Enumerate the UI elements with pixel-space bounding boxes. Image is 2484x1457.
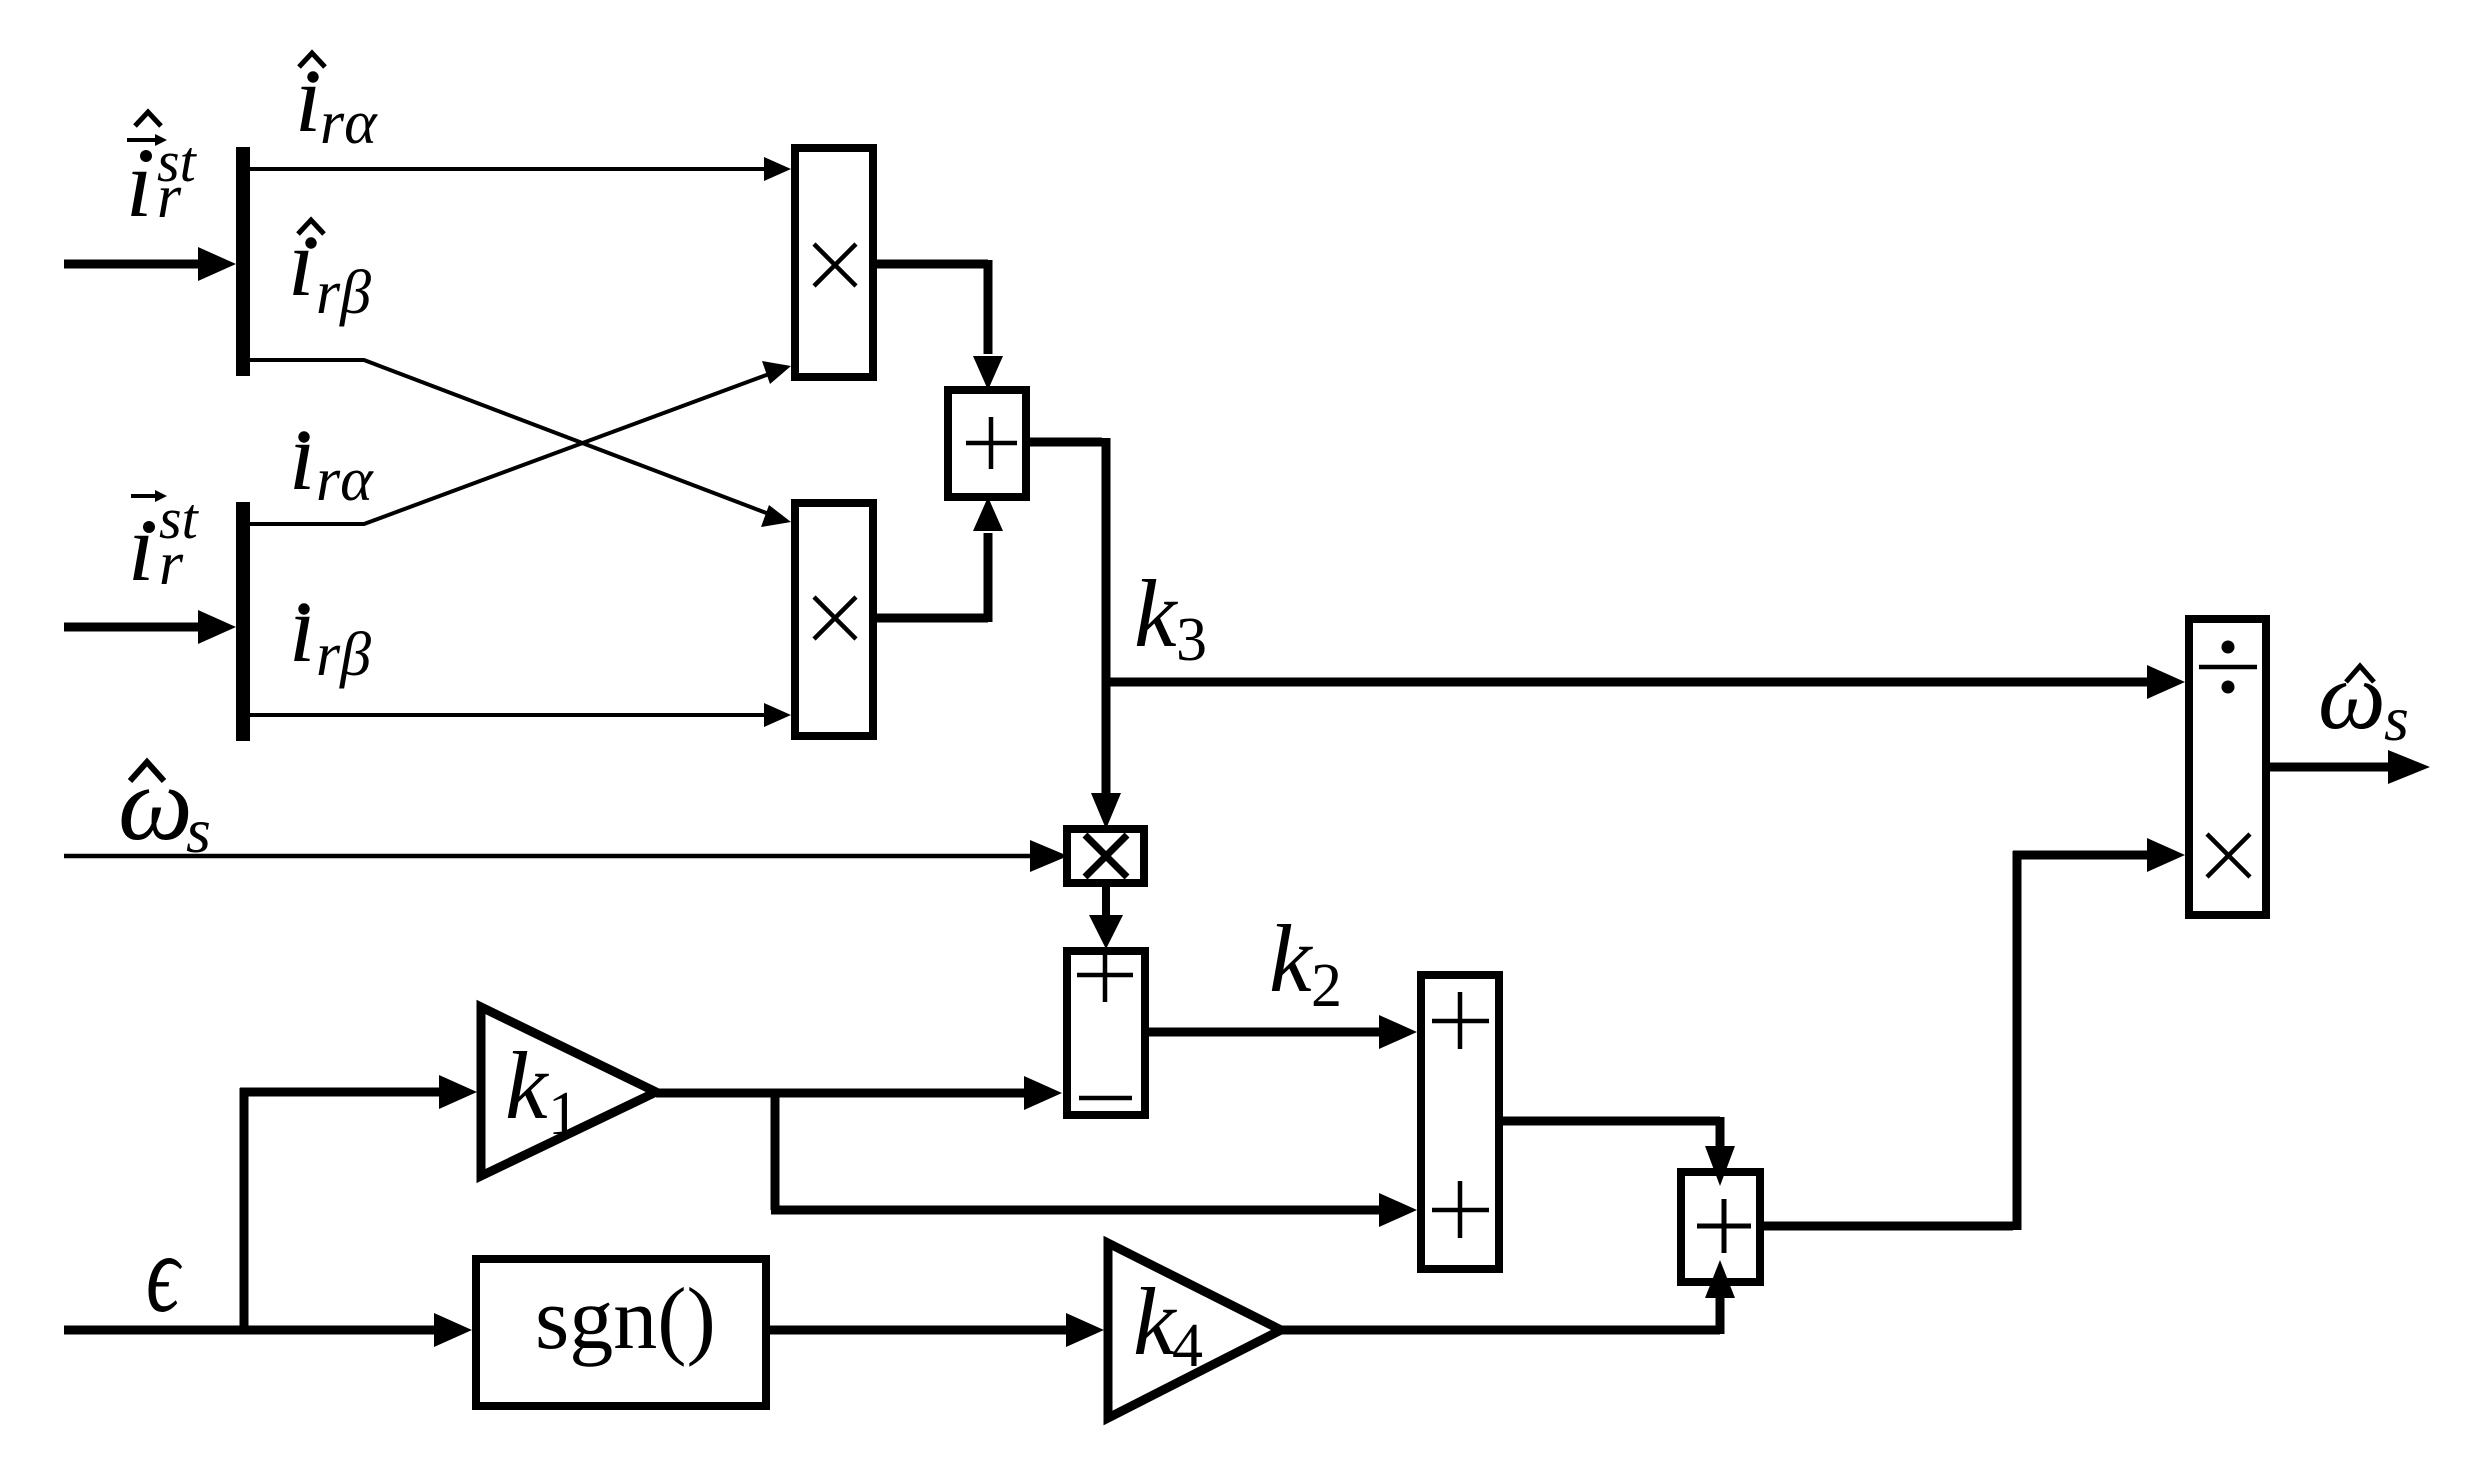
label i_r_alpha hat <box>295 45 378 157</box>
svg-text:3: 3 <box>1176 606 1207 674</box>
multiplier M2 <box>795 503 873 736</box>
wire M2 output up into summer S1 <box>877 497 1003 622</box>
svg-text:ω: ω <box>118 745 193 862</box>
label i_r_beta <box>289 575 371 689</box>
multiplier M1 <box>795 148 873 377</box>
svg-text:ı: ı <box>126 130 153 237</box>
svg-text:sgn(): sgn() <box>535 1271 716 1368</box>
bus bar B1 (estimated rotor current vector) <box>236 147 250 376</box>
wire S1 output right then down to multiplier X1, node k3 <box>1030 438 1121 829</box>
svg-text:ϵ: ϵ <box>146 1212 182 1336</box>
multiplier X1 (small x box) <box>1067 829 1144 883</box>
wire epsilon input line <box>64 1313 472 1347</box>
summer S3 (plus plus block) <box>1421 975 1499 1269</box>
svg-text:ı: ı <box>289 575 316 682</box>
wire junction epsilon up to gain K1 input <box>240 1075 477 1326</box>
summer S4 (final plus box) <box>1681 1172 1760 1282</box>
bus bar B2 (reference rotor current vector) <box>236 502 250 741</box>
svg-text:4: 4 <box>1172 1312 1203 1380</box>
wire K4 output right then up into summer S4 <box>1281 1260 1735 1334</box>
sgn() block <box>476 1259 766 1406</box>
wire i_r_alpha_hat from B1 to multiplier M1 <box>250 157 791 181</box>
wire divider output omega_s_hat <box>2270 750 2430 784</box>
wire k3 to divider block <box>1106 665 2185 699</box>
label omega_s_hat output <box>2318 642 2409 754</box>
wire omega_s_hat input to multiplier X1 <box>64 840 1068 872</box>
wire M1 output down into summer S1 <box>877 260 1003 390</box>
node k2 label <box>1269 905 1342 1020</box>
wire i_r_alpha from B2 diagonal up to multiplier M1 <box>250 361 791 524</box>
divider block DIV <box>2189 619 2266 915</box>
summer S2 (plus minus block) <box>1067 951 1145 1115</box>
svg-text:rβ: rβ <box>316 621 371 689</box>
svg-text:ı: ı <box>288 209 315 316</box>
label i_r^st hat (bus B1) <box>126 112 198 237</box>
svg-text:rβ: rβ <box>316 259 371 327</box>
gain K4 (triangle) <box>1108 1243 1281 1418</box>
summer S1 (plus block) <box>948 390 1026 497</box>
svg-text:1: 1 <box>548 1080 579 1148</box>
wire X1 output down into summer S2 <box>1089 887 1123 949</box>
svg-text:r: r <box>159 530 184 598</box>
wire input arrow into bus B1 <box>64 247 236 281</box>
svg-text:ı: ı <box>295 45 322 152</box>
svg-text:s: s <box>186 795 211 866</box>
wire i_r_beta_hat from B1 diagonal down to multiplier M2 <box>250 360 791 527</box>
svg-text:2: 2 <box>1311 952 1342 1020</box>
svg-text:s: s <box>2384 683 2409 754</box>
wire S4 output right then up to divider X input <box>1764 838 2185 1230</box>
wire S3 output right then down into summer S4 <box>1503 1117 1735 1186</box>
wire K1 output to summer S2 minus input <box>656 1076 1062 1110</box>
wire S2 output (node k2) to summer S3 upper input <box>1149 1015 1417 1049</box>
node k3 label <box>1134 560 1207 674</box>
svg-text:ı: ı <box>289 403 316 510</box>
svg-text:rα: rα <box>320 89 378 157</box>
label i_r_alpha <box>289 403 374 514</box>
svg-text:k: k <box>1269 905 1314 1012</box>
label i_r_beta hat <box>288 209 371 327</box>
label i_r^st (bus B2) <box>128 486 200 601</box>
svg-text:ı: ı <box>128 494 155 601</box>
svg-text:k: k <box>1134 560 1179 667</box>
wire sgn output to gain K4 <box>770 1313 1104 1347</box>
svg-text:k: k <box>505 1032 550 1139</box>
label omega_s_hat input <box>118 745 211 866</box>
wire K1 output branch down to summer S3 lower input <box>771 1093 1417 1227</box>
svg-text:rα: rα <box>316 446 374 514</box>
wire input arrow into bus B2 <box>64 610 236 644</box>
wire i_r_beta from B2 to multiplier M2 <box>250 703 791 727</box>
gain K1 (triangle) <box>481 1007 656 1176</box>
svg-text:ω: ω <box>2318 642 2386 749</box>
svg-text:r: r <box>157 163 182 231</box>
